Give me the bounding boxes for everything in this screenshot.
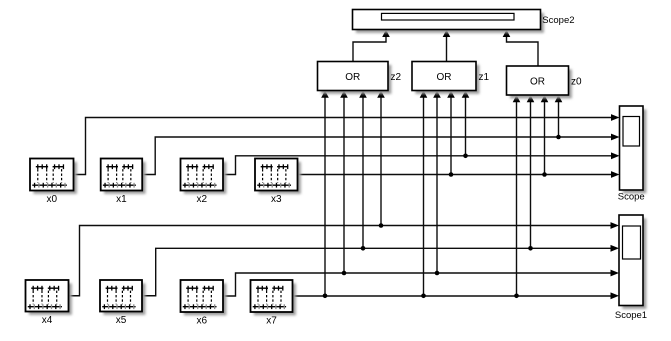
svg-text:x5: x5 bbox=[116, 315, 127, 326]
scope Scope bbox=[623, 109, 647, 193]
junction on x4 line at x=381 bbox=[379, 223, 384, 228]
svg-text:x4: x4 bbox=[42, 315, 53, 326]
pulse source block x4 bbox=[29, 283, 72, 315]
scope Scope2 bbox=[356, 13, 544, 33]
wire x6 branch up to OR1 input 2 bbox=[343, 98, 345, 274]
wire x7 branch up to OR1 input 1 bbox=[324, 98, 326, 296]
svg-text:x6: x6 bbox=[196, 316, 207, 327]
junction on x5 line at x=363 bbox=[361, 246, 366, 251]
wire x3 branch up to OR2 input 3 bbox=[450, 98, 452, 175]
wire x5 branch up to OR1 input 3 bbox=[362, 98, 364, 249]
svg-text:OR: OR bbox=[345, 72, 360, 83]
wire x7 branch up to OR3 input 1 bbox=[516, 102, 518, 296]
svg-text:Scope1: Scope1 bbox=[615, 310, 647, 321]
junction on x7 line at x=325 bbox=[323, 294, 328, 299]
pulse source block x5 bbox=[103, 283, 145, 315]
svg-text:Scope: Scope bbox=[618, 192, 645, 203]
logical OR gate OR1 (output z2) bbox=[321, 65, 392, 94]
wire x7 output to scope input bbox=[293, 295, 612, 297]
wire x1 output to scope input bbox=[142, 137, 611, 175]
wire x5 output to scope input bbox=[142, 248, 611, 295]
junction on x2 line at x=465.5 bbox=[463, 154, 468, 159]
wire OR1 output z2 to Scope2 input 1 bbox=[353, 37, 386, 62]
wire x2 output to scope input bbox=[223, 156, 612, 175]
wire x0 output to scope input bbox=[74, 118, 612, 175]
wire x1 branch up to OR3 input 4 bbox=[558, 102, 560, 137]
junction on x7 line at x=516.5 bbox=[514, 294, 519, 299]
svg-text:z0: z0 bbox=[571, 77, 582, 88]
wire x6 branch up to OR2 input 2 bbox=[436, 98, 438, 274]
wire x3 branch up to OR3 input 3 bbox=[544, 102, 546, 175]
junction on x1 line at x=558.5 bbox=[556, 135, 561, 140]
wire x7 branch up to OR2 input 1 bbox=[423, 98, 425, 296]
pulse source block x7 bbox=[254, 283, 296, 315]
svg-text:x3: x3 bbox=[271, 194, 282, 205]
wire x2 branch up to OR2 input 4 bbox=[465, 98, 467, 156]
pulse source block x6 bbox=[184, 283, 227, 315]
wire x4 output to scope input bbox=[69, 226, 612, 296]
pulse source block x0 bbox=[33, 162, 77, 194]
svg-text:OR: OR bbox=[437, 72, 452, 83]
wire x5 branch up to OR3 input 2 bbox=[530, 102, 532, 248]
logical OR gate OR3 (output z0) bbox=[510, 69, 572, 98]
svg-text:x0: x0 bbox=[46, 194, 57, 205]
svg-text:Scope2: Scope2 bbox=[542, 15, 574, 26]
pulse source block x3 bbox=[258, 162, 301, 194]
logical OR gate OR2 (output z1) bbox=[415, 65, 479, 94]
wire OR3 output z0 to Scope2 input 3 bbox=[507, 37, 539, 66]
wire x3 output to scope input bbox=[298, 174, 612, 176]
svg-text:x7: x7 bbox=[266, 316, 277, 327]
junction on x3 line at x=451 bbox=[449, 172, 454, 177]
svg-text:x1: x1 bbox=[116, 194, 127, 205]
junction on x6 line at x=437 bbox=[435, 271, 440, 276]
wire OR2 output z1 to Scope2 input 2 bbox=[446, 37, 448, 62]
svg-text:OR: OR bbox=[530, 77, 545, 88]
svg-text:z1: z1 bbox=[479, 72, 490, 83]
pulse source block x2 bbox=[184, 162, 227, 194]
junction on x6 line at x=344 bbox=[342, 271, 347, 276]
wire x6 output to scope input bbox=[223, 273, 611, 296]
junction on x3 line at x=544.5 bbox=[542, 172, 547, 177]
svg-text:x2: x2 bbox=[196, 194, 207, 205]
scope Scope1 bbox=[622, 218, 646, 309]
wire x4 branch up to OR1 input 4 bbox=[380, 98, 382, 226]
svg-text:z2: z2 bbox=[391, 72, 402, 83]
junction on x7 line at x=423.5 bbox=[421, 294, 426, 299]
pulse source block x1 bbox=[104, 162, 146, 194]
junction on x5 line at x=530.5 bbox=[528, 246, 533, 251]
